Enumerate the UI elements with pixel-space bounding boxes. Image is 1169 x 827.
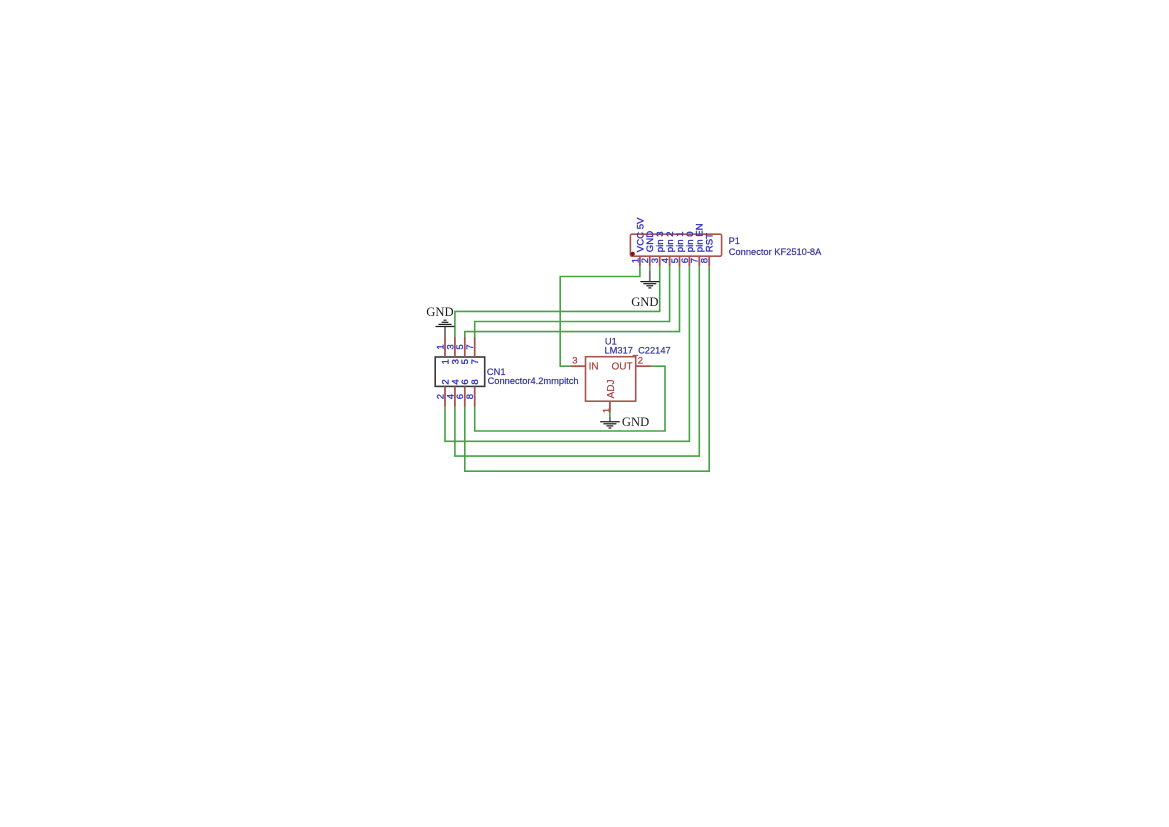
wire P1.8 to CN1.6 [465, 266, 709, 471]
svg-text:GND: GND [426, 305, 453, 319]
CN1 pin 4 [445, 379, 461, 407]
ground symbol at U1 ADJ [600, 417, 620, 428]
connector P1 body [630, 234, 721, 256]
CN1 pin 8 [465, 379, 481, 406]
P1 pin 4 [660, 231, 676, 266]
svg-text:IN: IN [589, 362, 599, 373]
svg-text:Connector KF2510-8A: Connector KF2510-8A [729, 247, 822, 257]
svg-text:7: 7 [465, 344, 476, 349]
P1 pin 3 [650, 231, 666, 266]
CN1 pin 1 [435, 337, 451, 364]
regulator U1 body [586, 357, 636, 402]
CN1 pin 2 [435, 379, 451, 406]
U1 pin 3 IN [570, 355, 598, 372]
CN1 pin 5 [455, 337, 471, 364]
ground symbol at CN1 pin 1 [436, 320, 455, 337]
U1 pin 1 ADJ [601, 379, 617, 413]
svg-text:LM317_C22147: LM317_C22147 [605, 345, 671, 355]
wire P1.6 to CN1.2 [445, 266, 689, 441]
P1 pin 6 [680, 231, 696, 266]
wire P1.1 to U1.IN [560, 266, 640, 366]
wire P1.7 to CN1.4 [455, 266, 699, 456]
wire P1.4 to CN1.7 [475, 266, 670, 337]
svg-text:8: 8 [465, 394, 476, 399]
svg-text:OUT: OUT [611, 362, 632, 373]
P1 pin 7 [690, 223, 706, 266]
ground symbol at P1 pin 2 [640, 271, 659, 288]
P1 pin 2 [640, 231, 656, 266]
wire U1.ADJ to GND [609, 412, 611, 417]
svg-text:8: 8 [700, 258, 711, 263]
CN1 pin 6 [455, 379, 471, 406]
P1 pin 5 [670, 231, 686, 266]
P1 pin 8 [700, 233, 716, 266]
CN1 pin 7 [465, 337, 481, 364]
wire U1.OUT to CN1.8 [475, 366, 665, 431]
svg-text:P1: P1 [729, 236, 740, 246]
svg-text:3: 3 [572, 355, 577, 366]
U1 pin 2 OUT [611, 355, 650, 372]
CN1 pin 3 [445, 337, 461, 364]
svg-text:ADJ: ADJ [606, 379, 617, 398]
svg-text:7: 7 [470, 359, 481, 364]
wire P1.3 to CN1.3 [455, 266, 660, 337]
svg-text:8: 8 [470, 379, 481, 384]
svg-text:2: 2 [638, 355, 643, 366]
wire P1.5 to CN1.5 [465, 266, 680, 337]
svg-text:1: 1 [601, 408, 612, 413]
svg-text:Connector4.2mmpitch: Connector4.2mmpitch [488, 376, 579, 386]
P1 pin 1 [630, 217, 646, 266]
svg-text:RST: RST [705, 233, 716, 252]
connector CN1 body [435, 357, 485, 386]
svg-text:GND: GND [622, 415, 649, 429]
wire P1.2 to GND [649, 266, 651, 271]
svg-text:GND: GND [631, 295, 658, 309]
